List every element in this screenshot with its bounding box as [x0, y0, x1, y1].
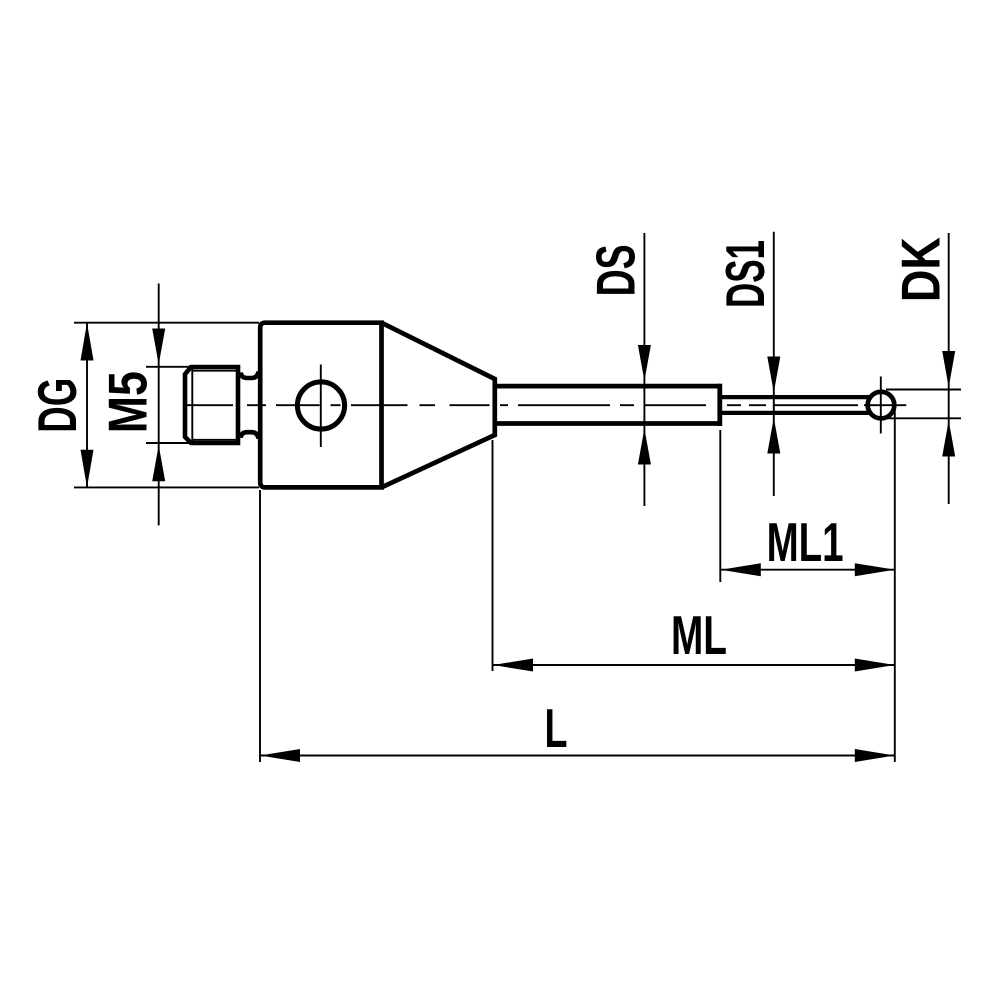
extension line body bottom: [74, 486, 259, 488]
neck between thread and body: [241, 372, 259, 439]
cone: [382, 323, 495, 488]
extension line ball top: [886, 389, 961, 391]
center line (axis): [187, 404, 906, 406]
svg-text:ML1: ML1: [767, 511, 844, 573]
dimension L line: [260, 755, 895, 757]
stem DS section: [495, 384, 720, 426]
M5 arrow up: [152, 445, 165, 481]
hole vertical crosshair: [320, 365, 322, 448]
extension line stem end (ML1 left): [719, 430, 721, 582]
svg-text:M5: M5: [96, 371, 158, 433]
hole circle in body: [297, 382, 344, 429]
svg-text:ML: ML: [671, 604, 727, 666]
dimension DG line: [86, 323, 88, 488]
DS1 arrow up: [767, 418, 780, 454]
ML1 arrow right: [855, 563, 895, 576]
svg-text:DK: DK: [889, 237, 951, 302]
DG arrow up: [81, 323, 94, 361]
extension line body top: [74, 322, 259, 324]
dimension DS line: [643, 233, 645, 506]
thread M5 outline: [185, 367, 238, 443]
DS1 arrow down: [767, 357, 780, 393]
svg-text:DS1: DS1: [714, 240, 776, 308]
extension line ball right (shared): [894, 405, 896, 762]
dimension ML1 line: [721, 569, 895, 571]
thin stem DS1 section: [722, 397, 872, 413]
DG arrow down: [81, 450, 94, 488]
dimension ML line: [493, 664, 895, 666]
extension line ball bottom: [886, 417, 961, 419]
body: [260, 323, 381, 488]
DK arrow down: [942, 351, 955, 387]
svg-text:DS: DS: [584, 244, 646, 296]
ML arrow right: [855, 659, 895, 672]
extension line thread top: [146, 366, 189, 368]
DS arrow up: [638, 429, 651, 465]
thread minor-diameter thin lines: [192, 369, 238, 441]
svg-text:L: L: [545, 697, 568, 759]
ball vertical crosshair: [880, 377, 882, 434]
DS arrow down: [638, 345, 651, 381]
dimension M5 line: [158, 284, 160, 526]
dimension DS1 line: [773, 232, 775, 496]
ball DK: [868, 392, 895, 419]
L arrow left: [260, 749, 300, 762]
extension line cone face (ML left): [492, 440, 494, 671]
extension line thread bottom: [146, 442, 189, 444]
DK arrow up: [942, 421, 955, 457]
dimension DK line: [948, 233, 950, 504]
ML1 arrow left: [721, 563, 761, 576]
M5 arrow down: [152, 329, 165, 365]
svg-text:DG: DG: [26, 378, 88, 433]
ML arrow left: [493, 659, 533, 672]
L arrow right: [855, 749, 895, 762]
extension line body left (L left): [259, 490, 261, 762]
